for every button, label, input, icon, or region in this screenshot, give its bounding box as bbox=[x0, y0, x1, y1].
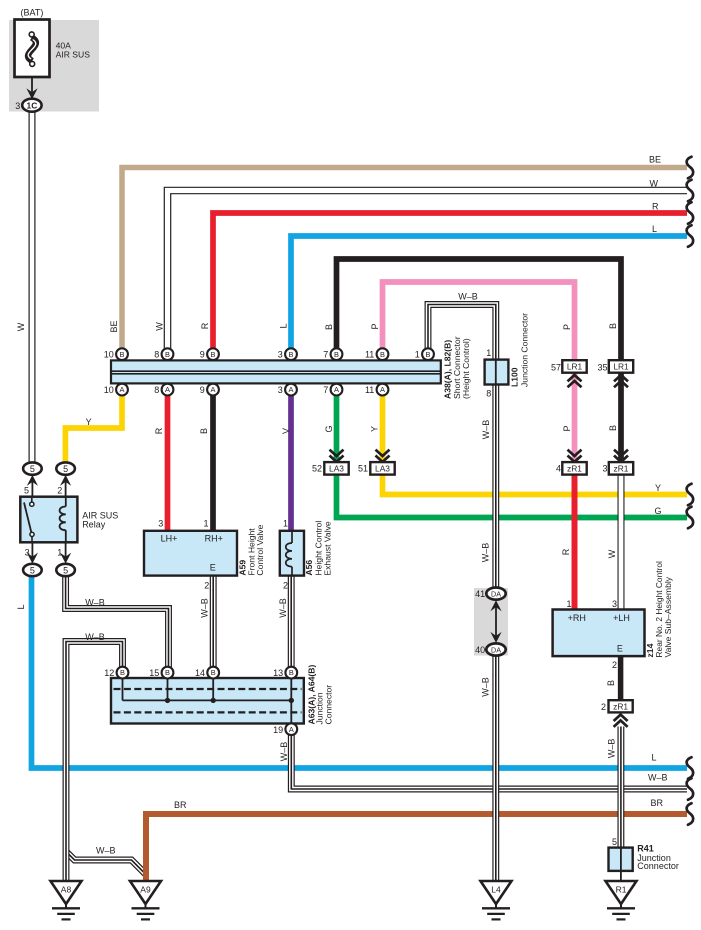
svg-text:RH+: RH+ bbox=[205, 533, 223, 543]
wire W-B (valve A59 pin 2 to A63 pin 14B) bbox=[210, 575, 217, 668]
svg-text:BR: BR bbox=[650, 798, 663, 808]
svg-text:5: 5 bbox=[30, 464, 35, 474]
pin 19(A) of A63 bbox=[285, 723, 297, 735]
svg-text:L: L bbox=[16, 604, 26, 609]
break symbol wire L bbox=[687, 225, 694, 247]
svg-text:E: E bbox=[617, 644, 623, 654]
connector LR1 pin 57 bbox=[562, 360, 586, 373]
svg-text:R: R bbox=[652, 202, 659, 212]
junction dot 14B bbox=[211, 698, 216, 703]
connector DA pin 41 bbox=[486, 588, 505, 600]
wire W (pin 8B to right edge) bbox=[168, 191, 688, 349]
svg-text:W–B: W–B bbox=[85, 632, 105, 642]
relay switch contact bbox=[31, 497, 33, 506]
pin 7(A) of A38 bar bbox=[331, 384, 343, 396]
svg-text:A: A bbox=[120, 385, 125, 394]
svg-text:B: B bbox=[120, 350, 125, 359]
break symbol wire W bbox=[687, 180, 694, 202]
connector oval 5 (above relay pin 2) bbox=[56, 462, 75, 474]
pin 7(B) of A38 bar bbox=[331, 348, 343, 360]
wire W (fuse 1C to relay pin 5) bbox=[29, 111, 36, 463]
wire P (pin 11B to connector LR1-57) bbox=[383, 282, 575, 360]
pin 3(A) of A38 bar bbox=[285, 384, 297, 396]
pin 13(B) of A63 bbox=[285, 667, 297, 679]
ground A8 bbox=[51, 881, 82, 904]
svg-text:Valve Sub–Assembly: Valve Sub–Assembly bbox=[663, 576, 673, 657]
svg-text:A: A bbox=[380, 385, 385, 394]
svg-text:B: B bbox=[120, 668, 125, 677]
svg-text:zR1: zR1 bbox=[614, 463, 629, 473]
svg-text:W–B: W–B bbox=[481, 543, 491, 563]
svg-text:10: 10 bbox=[104, 385, 114, 395]
chevrons into LA3-51 bbox=[376, 450, 390, 456]
pin 8(B) of A38 bar bbox=[162, 348, 174, 360]
wire W-B (pin 1B to L100) bbox=[428, 305, 496, 361]
svg-text:Connector: Connector bbox=[324, 685, 334, 725]
svg-text:W–B: W–B bbox=[481, 420, 491, 440]
wire B (z14 pin 2 to zR1-2) bbox=[618, 655, 624, 701]
svg-text:Relay: Relay bbox=[82, 520, 106, 530]
svg-text:Y: Y bbox=[370, 426, 380, 432]
wire B (pin 7B to connector LR1-35) bbox=[337, 259, 622, 360]
ground L4 bbox=[481, 881, 512, 904]
svg-text:B: B bbox=[211, 350, 216, 359]
svg-text:8: 8 bbox=[154, 385, 159, 395]
svg-text:A: A bbox=[334, 385, 339, 394]
wire BR (ground A9 to right edge) bbox=[146, 814, 687, 880]
svg-text:1C: 1C bbox=[27, 101, 38, 111]
svg-text:A: A bbox=[165, 385, 170, 394]
svg-text:11: 11 bbox=[365, 350, 374, 360]
break symbol wire Y bbox=[687, 484, 694, 506]
chevrons into zR1-3 bbox=[614, 450, 628, 456]
wire W-B (zR1-2 to R41) bbox=[617, 727, 624, 849]
svg-text:52: 52 bbox=[312, 464, 322, 474]
svg-text:5: 5 bbox=[24, 485, 29, 495]
svg-text:2: 2 bbox=[612, 660, 617, 670]
chevrons out of zR1-2 bbox=[614, 715, 628, 721]
svg-text:R: R bbox=[561, 548, 571, 555]
svg-text:35: 35 bbox=[597, 363, 607, 373]
pin 15(B) of A63 bbox=[162, 667, 174, 679]
svg-text:B: B bbox=[165, 350, 170, 359]
wire W-B (A63 pin 19A to right edge) bbox=[291, 735, 687, 789]
svg-text:A: A bbox=[289, 725, 294, 734]
connector LA3 pin 51 bbox=[370, 462, 394, 475]
svg-text:(Height Control): (Height Control) bbox=[461, 338, 471, 399]
svg-text:9: 9 bbox=[200, 385, 205, 395]
svg-text:2: 2 bbox=[204, 581, 209, 591]
svg-text:1: 1 bbox=[203, 519, 208, 529]
svg-text:DA: DA bbox=[491, 589, 501, 598]
break symbol wire G bbox=[687, 507, 694, 529]
wire R (pin 9B to right edge) bbox=[213, 213, 687, 348]
svg-text:B: B bbox=[289, 350, 294, 359]
svg-text:P: P bbox=[562, 324, 572, 330]
connector LA3 pin 52 bbox=[324, 462, 348, 475]
svg-text:Connector: Connector bbox=[637, 861, 679, 871]
svg-text:W–B: W–B bbox=[278, 598, 288, 618]
svg-text:1: 1 bbox=[486, 348, 491, 358]
svg-text:W–B: W–B bbox=[200, 598, 210, 618]
svg-text:41: 41 bbox=[475, 589, 485, 599]
valve A56 Height Control Exhaust bbox=[280, 531, 304, 576]
wire W-B (branch to ground A9) bbox=[66, 852, 146, 875]
break symbol wire R bbox=[687, 202, 694, 224]
svg-text:R: R bbox=[154, 427, 164, 434]
svg-text:3: 3 bbox=[278, 385, 283, 395]
junction dot 15B bbox=[165, 698, 170, 703]
chevrons into zR1-4 bbox=[568, 450, 582, 456]
svg-text:2: 2 bbox=[57, 485, 62, 495]
wire W (zR1-3 to z14 pin 3) bbox=[618, 474, 625, 610]
svg-text:W–B: W–B bbox=[96, 845, 116, 855]
svg-text:B: B bbox=[426, 350, 431, 359]
svg-text:LR1: LR1 bbox=[567, 361, 583, 371]
A63 internal bus bbox=[122, 678, 124, 700]
svg-text:Control Valve: Control Valve bbox=[255, 524, 265, 575]
svg-text:1: 1 bbox=[566, 599, 571, 609]
svg-text:B: B bbox=[165, 668, 170, 677]
pin 9(A) of A38 bar bbox=[207, 384, 219, 396]
svg-text:E: E bbox=[210, 562, 216, 572]
wire W-B (L100 to connector DA-41) bbox=[492, 384, 499, 589]
svg-text:P: P bbox=[562, 425, 572, 431]
svg-text:11: 11 bbox=[365, 385, 374, 395]
svg-text:15: 15 bbox=[149, 668, 159, 678]
wire W-B (valve A56 pin 2 to A63 pin 13B) bbox=[288, 575, 295, 668]
svg-text:W: W bbox=[607, 549, 617, 558]
pin 3(B) of A38 bar bbox=[285, 348, 297, 360]
svg-text:G: G bbox=[654, 506, 661, 516]
svg-text:(BAT): (BAT) bbox=[21, 8, 44, 18]
svg-text:B: B bbox=[211, 668, 216, 677]
svg-text:9: 9 bbox=[200, 350, 205, 360]
svg-text:14: 14 bbox=[195, 668, 205, 678]
svg-text:Junction Connector: Junction Connector bbox=[519, 313, 529, 387]
svg-text:AIR SUS: AIR SUS bbox=[56, 50, 91, 60]
arrow relay pin 3 down bbox=[31, 542, 33, 558]
connector DA pass-through background bbox=[474, 588, 508, 656]
svg-text:zR1: zR1 bbox=[567, 463, 582, 473]
pin 12(B) of A63 bbox=[117, 667, 129, 679]
connector zR1 pin 4 bbox=[562, 462, 586, 475]
wire R (pin 8A to valve A59 pin 3) bbox=[165, 395, 171, 532]
svg-text:B: B bbox=[608, 323, 618, 329]
svg-text:L: L bbox=[279, 323, 289, 328]
pin 9(B) of A38 bar bbox=[207, 348, 219, 360]
arrow relay pin 5 up bbox=[31, 480, 33, 498]
svg-text:5: 5 bbox=[612, 837, 617, 847]
svg-text:G: G bbox=[324, 425, 334, 432]
svg-text:3: 3 bbox=[278, 350, 283, 360]
svg-text:BR: BR bbox=[174, 800, 187, 810]
svg-text:BE: BE bbox=[109, 320, 119, 332]
pin 1(B) of A38 bar bbox=[422, 348, 434, 360]
svg-text:LR1: LR1 bbox=[613, 361, 629, 371]
connector oval 5 (below relay pin 1) bbox=[56, 564, 75, 576]
svg-text:2: 2 bbox=[601, 702, 606, 712]
svg-text:zR1: zR1 bbox=[613, 701, 628, 711]
break symbol wire BE bbox=[687, 157, 694, 179]
relay AIR SUS box bbox=[20, 497, 77, 543]
svg-text:B: B bbox=[324, 324, 334, 330]
ground A9 bbox=[130, 881, 161, 904]
svg-text:W–B: W–B bbox=[648, 772, 668, 782]
wire L (pin 3B to right edge) bbox=[291, 236, 687, 348]
svg-text:A: A bbox=[211, 385, 216, 394]
svg-text:3: 3 bbox=[15, 101, 20, 111]
wire W-B (R41 to ground R1) bbox=[620, 848, 622, 882]
svg-text:W: W bbox=[16, 322, 26, 331]
wire G (pin 7A through LA3 to right edge) bbox=[337, 395, 688, 518]
svg-text:13: 13 bbox=[273, 668, 283, 678]
svg-text:3: 3 bbox=[612, 599, 617, 609]
svg-text:3: 3 bbox=[602, 464, 607, 474]
wire L (relay pin 3 to right edge) bbox=[32, 575, 688, 768]
pin 10(A) of A38 bar bbox=[116, 384, 128, 396]
svg-text:12: 12 bbox=[104, 668, 114, 678]
valve A59 Front Height Control bbox=[144, 531, 237, 576]
junction connector A63(A) A64(B) bbox=[111, 678, 304, 724]
svg-text:P: P bbox=[370, 323, 380, 329]
svg-text:L: L bbox=[651, 752, 656, 762]
connector LR1 pin 35 bbox=[609, 360, 633, 373]
svg-text:5: 5 bbox=[63, 565, 68, 575]
relay coil bbox=[65, 497, 67, 507]
svg-text:Y: Y bbox=[655, 483, 661, 493]
svg-text:W–B: W–B bbox=[279, 742, 289, 762]
wire B (LR1-35 to zR1-3) bbox=[618, 372, 624, 463]
svg-text:LH+: LH+ bbox=[161, 533, 178, 543]
wire BE (pin 10B to right edge) bbox=[122, 168, 687, 349]
svg-text:W–B: W–B bbox=[481, 677, 491, 697]
svg-text:A38(A), L82(B): A38(A), L82(B) bbox=[442, 340, 452, 399]
break symbol wire L bottom bbox=[687, 757, 694, 779]
wire Y (pin 11A through LA3 to right edge) bbox=[383, 395, 688, 495]
svg-text:5: 5 bbox=[63, 464, 68, 474]
svg-text:A8: A8 bbox=[61, 885, 72, 895]
svg-text:B: B bbox=[608, 425, 618, 431]
connector bar A38(A) L82(B) bbox=[111, 360, 441, 383]
svg-text:4: 4 bbox=[556, 464, 561, 474]
svg-text:R: R bbox=[200, 322, 210, 329]
arrow relay pin 2 up bbox=[65, 480, 67, 498]
connector DA pin 40 bbox=[486, 643, 505, 655]
svg-text:57: 57 bbox=[551, 363, 561, 373]
svg-text:W: W bbox=[650, 178, 659, 188]
connector 1C pin 3 bbox=[22, 99, 41, 112]
chevrons into LA3-52 bbox=[330, 450, 344, 456]
svg-text:1: 1 bbox=[283, 519, 288, 529]
svg-text:W–B: W–B bbox=[606, 739, 616, 759]
connector zR1 pin 3 bbox=[609, 462, 633, 475]
svg-text:B: B bbox=[199, 428, 209, 434]
svg-text:LA3: LA3 bbox=[329, 463, 344, 473]
svg-text:B: B bbox=[380, 350, 385, 359]
svg-text:LA3: LA3 bbox=[375, 463, 390, 473]
svg-text:A9: A9 bbox=[140, 885, 151, 895]
valve z14 Rear No.2 Height Control bbox=[553, 610, 645, 657]
svg-text:V: V bbox=[281, 428, 291, 434]
ground R1 bbox=[606, 881, 637, 904]
svg-text:B: B bbox=[606, 680, 616, 686]
svg-text:Y: Y bbox=[86, 417, 92, 427]
pin 11(B) of A38 bar bbox=[377, 348, 389, 360]
wire R (zR1-4 to z14 pin 1) bbox=[572, 474, 578, 610]
connector oval 5 (above relay pin 5) bbox=[23, 462, 42, 474]
svg-text:A56: A56 bbox=[304, 560, 314, 576]
svg-text:19: 19 bbox=[273, 725, 283, 735]
svg-text:W–B: W–B bbox=[458, 291, 478, 301]
svg-text:B: B bbox=[289, 668, 294, 677]
svg-text:L100: L100 bbox=[510, 367, 520, 387]
svg-text:7: 7 bbox=[323, 350, 328, 360]
wire P (LR1-57 to zR1-4) bbox=[572, 372, 578, 463]
DA link arrows bbox=[495, 604, 497, 639]
svg-text:DA: DA bbox=[491, 645, 501, 654]
wire V (pin 3A to valve A56 pin 1) bbox=[288, 395, 294, 532]
break symbol wire W-B bottom bbox=[687, 778, 694, 800]
connector oval 5 (below relay pin 3) bbox=[23, 564, 42, 576]
chevrons out of LR1-57 bbox=[568, 375, 582, 381]
svg-text:40: 40 bbox=[475, 645, 485, 655]
arrow relay pin 1 down bbox=[65, 542, 67, 558]
svg-text:Exhaust Valve: Exhaust Valve bbox=[323, 521, 333, 576]
svg-text:+LH: +LH bbox=[613, 613, 630, 623]
svg-text:L4: L4 bbox=[491, 885, 501, 895]
fuse 40A AIR SUS bbox=[15, 20, 50, 78]
svg-text:3: 3 bbox=[158, 519, 163, 529]
arrow into connector 1C bbox=[26, 88, 37, 99]
svg-text:W–B: W–B bbox=[85, 598, 105, 608]
wire W-B (A63 pin 12B to ground A8) bbox=[66, 642, 123, 881]
wire W-B (connector DA-40 to ground L4) bbox=[492, 655, 499, 882]
svg-text:W: W bbox=[155, 322, 165, 331]
svg-text:A: A bbox=[289, 385, 294, 394]
wire fuse to connector 1C bbox=[31, 77, 33, 92]
wire Y (pin 10A to relay pin 2) bbox=[65, 395, 122, 463]
pin 11(A) of A38 bar bbox=[377, 384, 389, 396]
svg-text:BE: BE bbox=[649, 155, 661, 165]
connector zR1 pin 2 bbox=[609, 700, 633, 712]
junction connector L100 bbox=[485, 360, 509, 385]
svg-text:L: L bbox=[652, 224, 657, 234]
pin 10(B) of A38 bar bbox=[116, 348, 128, 360]
svg-text:8: 8 bbox=[486, 389, 491, 399]
fuse block background bbox=[9, 20, 99, 112]
svg-text:1: 1 bbox=[57, 547, 62, 557]
svg-text:R1: R1 bbox=[616, 885, 627, 895]
pin 14(B) of A63 bbox=[207, 667, 219, 679]
svg-text:1: 1 bbox=[415, 350, 420, 360]
junction connector R41 bbox=[609, 848, 633, 871]
wire B (pin 9A to valve A59 pin 1) bbox=[210, 395, 216, 532]
svg-text:7: 7 bbox=[323, 385, 328, 395]
chevrons out of LR1-35 bbox=[614, 375, 628, 381]
junction dot 13B bbox=[289, 698, 294, 703]
svg-text:8: 8 bbox=[154, 350, 159, 360]
svg-text:51: 51 bbox=[358, 464, 368, 474]
svg-text:10: 10 bbox=[104, 350, 114, 360]
svg-text:B: B bbox=[334, 350, 339, 359]
svg-text:+RH: +RH bbox=[568, 613, 586, 623]
pin 8(A) of A38 bar bbox=[162, 384, 174, 396]
break symbol wire BR bbox=[687, 803, 694, 825]
svg-text:2: 2 bbox=[283, 581, 288, 591]
svg-text:5: 5 bbox=[30, 565, 35, 575]
wire W-B (relay pin 1 to A63 pin 15B) bbox=[66, 575, 169, 667]
